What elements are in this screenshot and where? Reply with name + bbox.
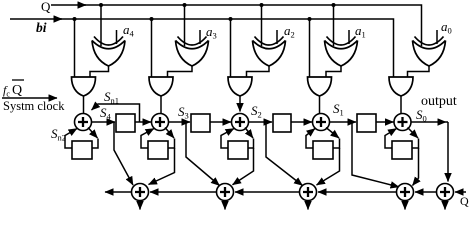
- svg-text:bi: bi: [36, 20, 47, 35]
- svg-text:output: output: [421, 94, 457, 109]
- svg-text:Systm clock: Systm clock: [3, 99, 65, 113]
- svg-text:Q: Q: [41, 0, 51, 14]
- svg-text:Q: Q: [12, 83, 22, 98]
- svg-text:Q: Q: [460, 194, 469, 208]
